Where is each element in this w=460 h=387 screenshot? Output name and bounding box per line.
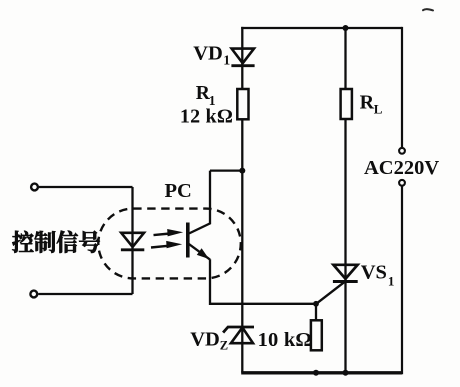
svg-text:VS: VS — [361, 262, 387, 284]
light arrow 2 — [151, 241, 182, 248]
diode VD1 triangle — [232, 49, 254, 64]
node junction dot 10k/bus — [313, 370, 319, 376]
svg-text:12 kΩ: 12 kΩ — [180, 105, 233, 127]
svg-text:Z: Z — [220, 338, 228, 352]
wire top rail — [241, 27, 402, 29]
wire RL/VS1 branch vertical — [344, 28, 346, 373]
svg-text:1: 1 — [388, 274, 395, 289]
node junction dot top rail — [343, 25, 349, 31]
terminal input bottom — [30, 291, 37, 298]
wire emitter vertical + horizontal to gate node — [210, 259, 316, 304]
transistor base bar — [186, 223, 190, 258]
scan artifact smudge top right — [423, 9, 433, 10]
thyristor VS1 triangle — [333, 265, 357, 279]
wire right AC branch lower — [401, 186, 403, 374]
transistor emitter diagonal — [189, 244, 210, 260]
svg-text:10 kΩ: 10 kΩ — [258, 329, 312, 351]
terminal AC bottom — [399, 180, 405, 186]
wire LED branch vertical — [131, 187, 133, 294]
resistor R1 body — [237, 89, 248, 119]
wire bottom input lead — [38, 293, 132, 295]
wire right AC branch upper — [401, 27, 403, 147]
svg-text:PC: PC — [165, 180, 192, 202]
zener VDZ triangle — [231, 328, 253, 344]
transistor emitter arrowhead — [197, 248, 209, 259]
resistor RL body — [341, 89, 352, 119]
resistor 10k body — [311, 320, 322, 350]
optocoupler dashed outline — [98, 209, 241, 279]
wire gate node to 10k resistor — [315, 304, 317, 321]
svg-text:L: L — [374, 102, 383, 117]
diode VD1 cathode bar — [231, 64, 254, 67]
wire top input lead — [39, 186, 133, 188]
thyristor VS1 cathode bar — [333, 280, 358, 283]
wire VS1 gate diagonal — [316, 282, 345, 304]
LED triangle (optocoupler) — [121, 233, 144, 247]
terminal input top — [31, 184, 38, 191]
wire collector horizontal to node — [210, 169, 242, 171]
svg-text:VD: VD — [193, 43, 223, 65]
terminal AC top — [399, 148, 405, 154]
node junction dot collector/R1 — [239, 168, 245, 174]
node junction dot gate — [313, 301, 319, 307]
svg-text:VD: VD — [190, 328, 220, 350]
label control signal (Chinese glyph paths) — [12, 231, 100, 253]
light arrow 1 — [154, 229, 184, 236]
svg-text:1: 1 — [223, 53, 230, 68]
node junction dot VS1/bus — [343, 370, 349, 376]
wire bottom bus — [241, 371, 402, 374]
zener VDZ cathode bar with tail — [223, 327, 254, 333]
wire left branch vertical — [241, 27, 243, 373]
svg-text:AC220V: AC220V — [364, 157, 439, 179]
svg-text:R: R — [360, 91, 375, 113]
wire collector vertical — [189, 171, 210, 234]
LED cathode bar — [121, 248, 144, 251]
